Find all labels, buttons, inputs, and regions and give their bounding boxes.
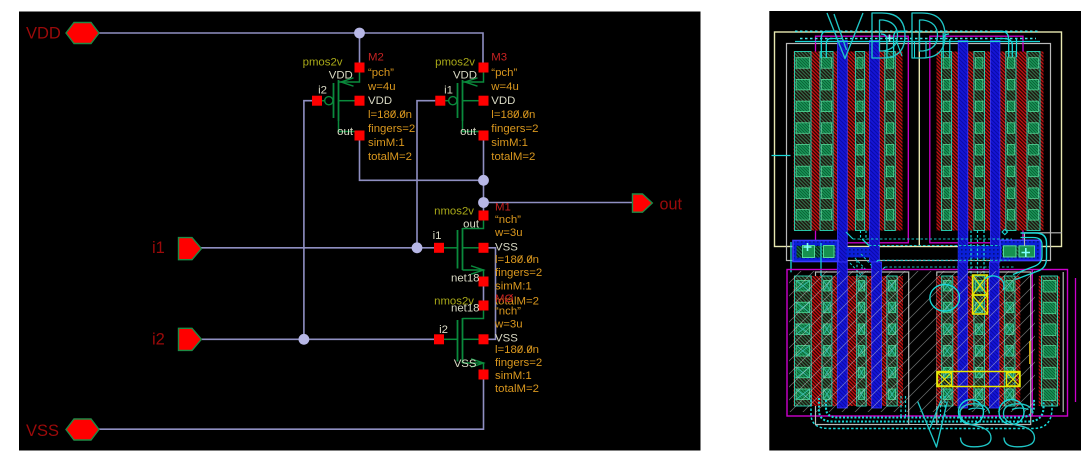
svg-text:net18: net18	[451, 303, 480, 315]
NMOS left block	[794, 276, 904, 406]
svg-text:i2: i2	[439, 324, 448, 336]
pin VSS (hexagon)	[66, 419, 99, 440]
blue metal1 vertical bars top-right block	[958, 41, 968, 263]
svg-text:VDD: VDD	[329, 70, 353, 82]
gray top rect	[787, 44, 1051, 261]
svg-text:M2: M2	[368, 52, 384, 64]
wire i2 net	[201, 338, 434, 340]
pmos M3 symbol	[463, 73, 484, 83]
M1 pin S	[479, 277, 489, 287]
cream prBoundary rect	[775, 32, 1062, 247]
svg-text:“pch”: “pch”	[491, 67, 517, 79]
wire i1 riser to M3 gate	[417, 101, 435, 248]
wire i2 riser to M2 gate	[304, 101, 312, 340]
M3 pin S	[479, 63, 489, 73]
VDD layout text	[827, 13, 863, 59]
layout panel background	[769, 11, 1081, 451]
svg-text:w=3u: w=3u	[494, 318, 523, 330]
junction i1 tee	[412, 242, 423, 253]
cyan diag joins	[846, 232, 853, 239]
svg-text:out: out	[463, 219, 480, 231]
wire M3 drain / out column	[483, 141, 485, 211]
wire M0 source to VSS rail	[99, 380, 484, 430]
svg-text:simM:1: simM:1	[495, 280, 532, 292]
svg-text:fingers=2: fingers=2	[495, 357, 542, 369]
VDD rail dashed m2 lines	[795, 30, 1040, 32]
wire out net horizontal	[484, 202, 633, 204]
svg-text:out: out	[660, 196, 683, 214]
svg-text:simM:1: simM:1	[491, 137, 528, 149]
svg-text:i2: i2	[318, 85, 327, 97]
svg-text:VSS: VSS	[454, 358, 477, 370]
svg-text:fingers=2: fingers=2	[491, 123, 538, 135]
svg-text:i1: i1	[152, 239, 165, 257]
M2 pin S	[355, 63, 365, 73]
wire i1 net	[201, 247, 434, 249]
nmos M1 symbol	[463, 221, 484, 229]
svg-text:i2: i2	[152, 331, 165, 349]
magenta bottom inner divider	[1031, 270, 1033, 417]
svg-text:“nch”: “nch”	[495, 306, 521, 318]
yellow bottom band	[937, 372, 1020, 387]
svg-text:VSS: VSS	[26, 422, 59, 440]
svg-text:out: out	[337, 126, 354, 138]
svg-text:VSS: VSS	[495, 332, 518, 344]
svg-text:w=3u: w=3u	[494, 227, 523, 239]
magenta top-left rect	[816, 36, 909, 243]
wire M2 source riser	[359, 33, 361, 63]
small cyan diamond	[1002, 229, 1007, 234]
pin i1 (input arrow)	[179, 238, 202, 260]
blue metal1 vertical bars bottom-left block	[837, 262, 847, 408]
svg-text:w=4u: w=4u	[367, 81, 396, 93]
svg-text:M1: M1	[495, 202, 511, 214]
junction VDD rail / M2	[354, 28, 365, 39]
left M1 tap box (blue with green contacts)	[793, 241, 838, 262]
cyan bottom stubs	[900, 396, 902, 418]
svg-text:l=180.0n: l=180.0n	[368, 109, 412, 121]
M2 pin D	[355, 131, 365, 141]
svg-text:out: out	[460, 126, 477, 138]
svg-text:M3: M3	[491, 52, 507, 64]
junction out drains	[478, 175, 489, 186]
NMOS right block	[937, 276, 1021, 406]
cyan top trace curves	[821, 31, 835, 58]
pmos M2 symbol	[339, 73, 360, 83]
junction i2 tee	[299, 334, 310, 345]
svg-text:pmos2v: pmos2v	[435, 57, 475, 69]
svg-text:VDD: VDD	[491, 95, 515, 107]
M0 pin S	[479, 370, 489, 380]
orange tick right	[1029, 341, 1031, 364]
middle blue connectors	[846, 247, 870, 257]
yellow out-net highlight boxes	[973, 275, 988, 295]
cream center divider	[918, 32, 920, 247]
pwell white diagonal hatch overlay	[789, 271, 1035, 412]
cyan mid verticals (out net)	[970, 231, 972, 278]
gray right outer line	[1062, 272, 1064, 412]
svg-text:totalM=2: totalM=2	[491, 151, 535, 163]
gray bottom-left rect	[816, 272, 909, 425]
svg-text:simM:1: simM:1	[495, 370, 532, 382]
wire VDD rail	[99, 33, 483, 63]
wire M2 drain to out junction	[360, 141, 484, 181]
svg-text:MØ: MØ	[495, 293, 513, 305]
blue metal1 vertical bars bottom-right block	[958, 262, 967, 408]
svg-text:l=180.0n: l=180.0n	[491, 109, 535, 121]
svg-text:net18: net18	[451, 273, 480, 285]
cyan mid-right loop trace	[1016, 233, 1047, 280]
M1 VSS bulk label	[391, 110, 396, 117]
junction out pin tee	[478, 197, 489, 208]
magenta bottom rect	[787, 270, 1068, 417]
svg-text:“pch”: “pch”	[368, 67, 394, 79]
svg-text:nmos2v: nmos2v	[434, 206, 474, 218]
M3 pin G	[435, 96, 445, 106]
svg-text:i1: i1	[433, 230, 442, 242]
layout PMOS right block	[937, 52, 1044, 231]
M3 pin B	[479, 96, 489, 106]
solid cyan m1 rail line	[795, 41, 1040, 43]
gray bottom-right rect	[937, 272, 1031, 425]
blue metal1 vertical bars top-left block	[838, 41, 848, 263]
svg-text:VDD: VDD	[368, 95, 392, 107]
svg-text:pmos2v: pmos2v	[303, 57, 343, 69]
magenta top-right rect	[930, 36, 1023, 243]
svg-text:simM:1: simM:1	[368, 137, 405, 149]
M0 pin G	[434, 334, 444, 344]
svg-text:fingers=2: fingers=2	[368, 123, 415, 135]
M0 pin D	[479, 301, 489, 311]
schematic panel background	[19, 12, 701, 451]
layout PMOS left block (M2/M3 pdiff)	[794, 52, 903, 231]
svg-text:VDD: VDD	[453, 70, 477, 82]
M2 pin G	[312, 96, 322, 106]
pin i2 (input arrow)	[179, 328, 202, 350]
svg-text:totalM=2: totalM=2	[495, 383, 539, 395]
svg-text:l=180.0n: l=180.0n	[495, 254, 539, 266]
svg-text:VDD: VDD	[26, 25, 61, 43]
svg-text:totalM=2: totalM=2	[368, 151, 412, 163]
wire bulk VSS M1.B to M0.B	[489, 248, 496, 339]
M0 pin B	[479, 334, 489, 344]
svg-text:VSS: VSS	[495, 241, 518, 253]
svg-text:l=180.0n: l=180.0n	[495, 344, 539, 356]
pin VDD (hexagon)	[66, 23, 99, 44]
svg-text:fingers=2: fingers=2	[495, 267, 542, 279]
nmos M0 symbol	[463, 311, 484, 319]
svg-text:“nch”: “nch”	[495, 214, 521, 226]
M1 pin G	[434, 243, 444, 253]
M1 pin B	[479, 243, 489, 253]
VSS layout text	[918, 402, 948, 448]
right tap box	[1000, 240, 1041, 260]
M2 pin B	[355, 96, 365, 106]
wire net18 M1.S to M0.D	[483, 287, 485, 301]
cyan bottom bus	[826, 399, 1034, 418]
M1 pin D	[479, 211, 489, 221]
svg-text:w=4u: w=4u	[490, 81, 519, 93]
psub tap column right	[1039, 276, 1060, 406]
cyan circles (pin markers)	[930, 285, 960, 312]
cyan mid routing dashes	[853, 238, 1012, 240]
M3 pin D	[479, 131, 489, 141]
pin out (output arrow)	[633, 194, 653, 212]
svg-text:i1: i1	[444, 85, 453, 97]
